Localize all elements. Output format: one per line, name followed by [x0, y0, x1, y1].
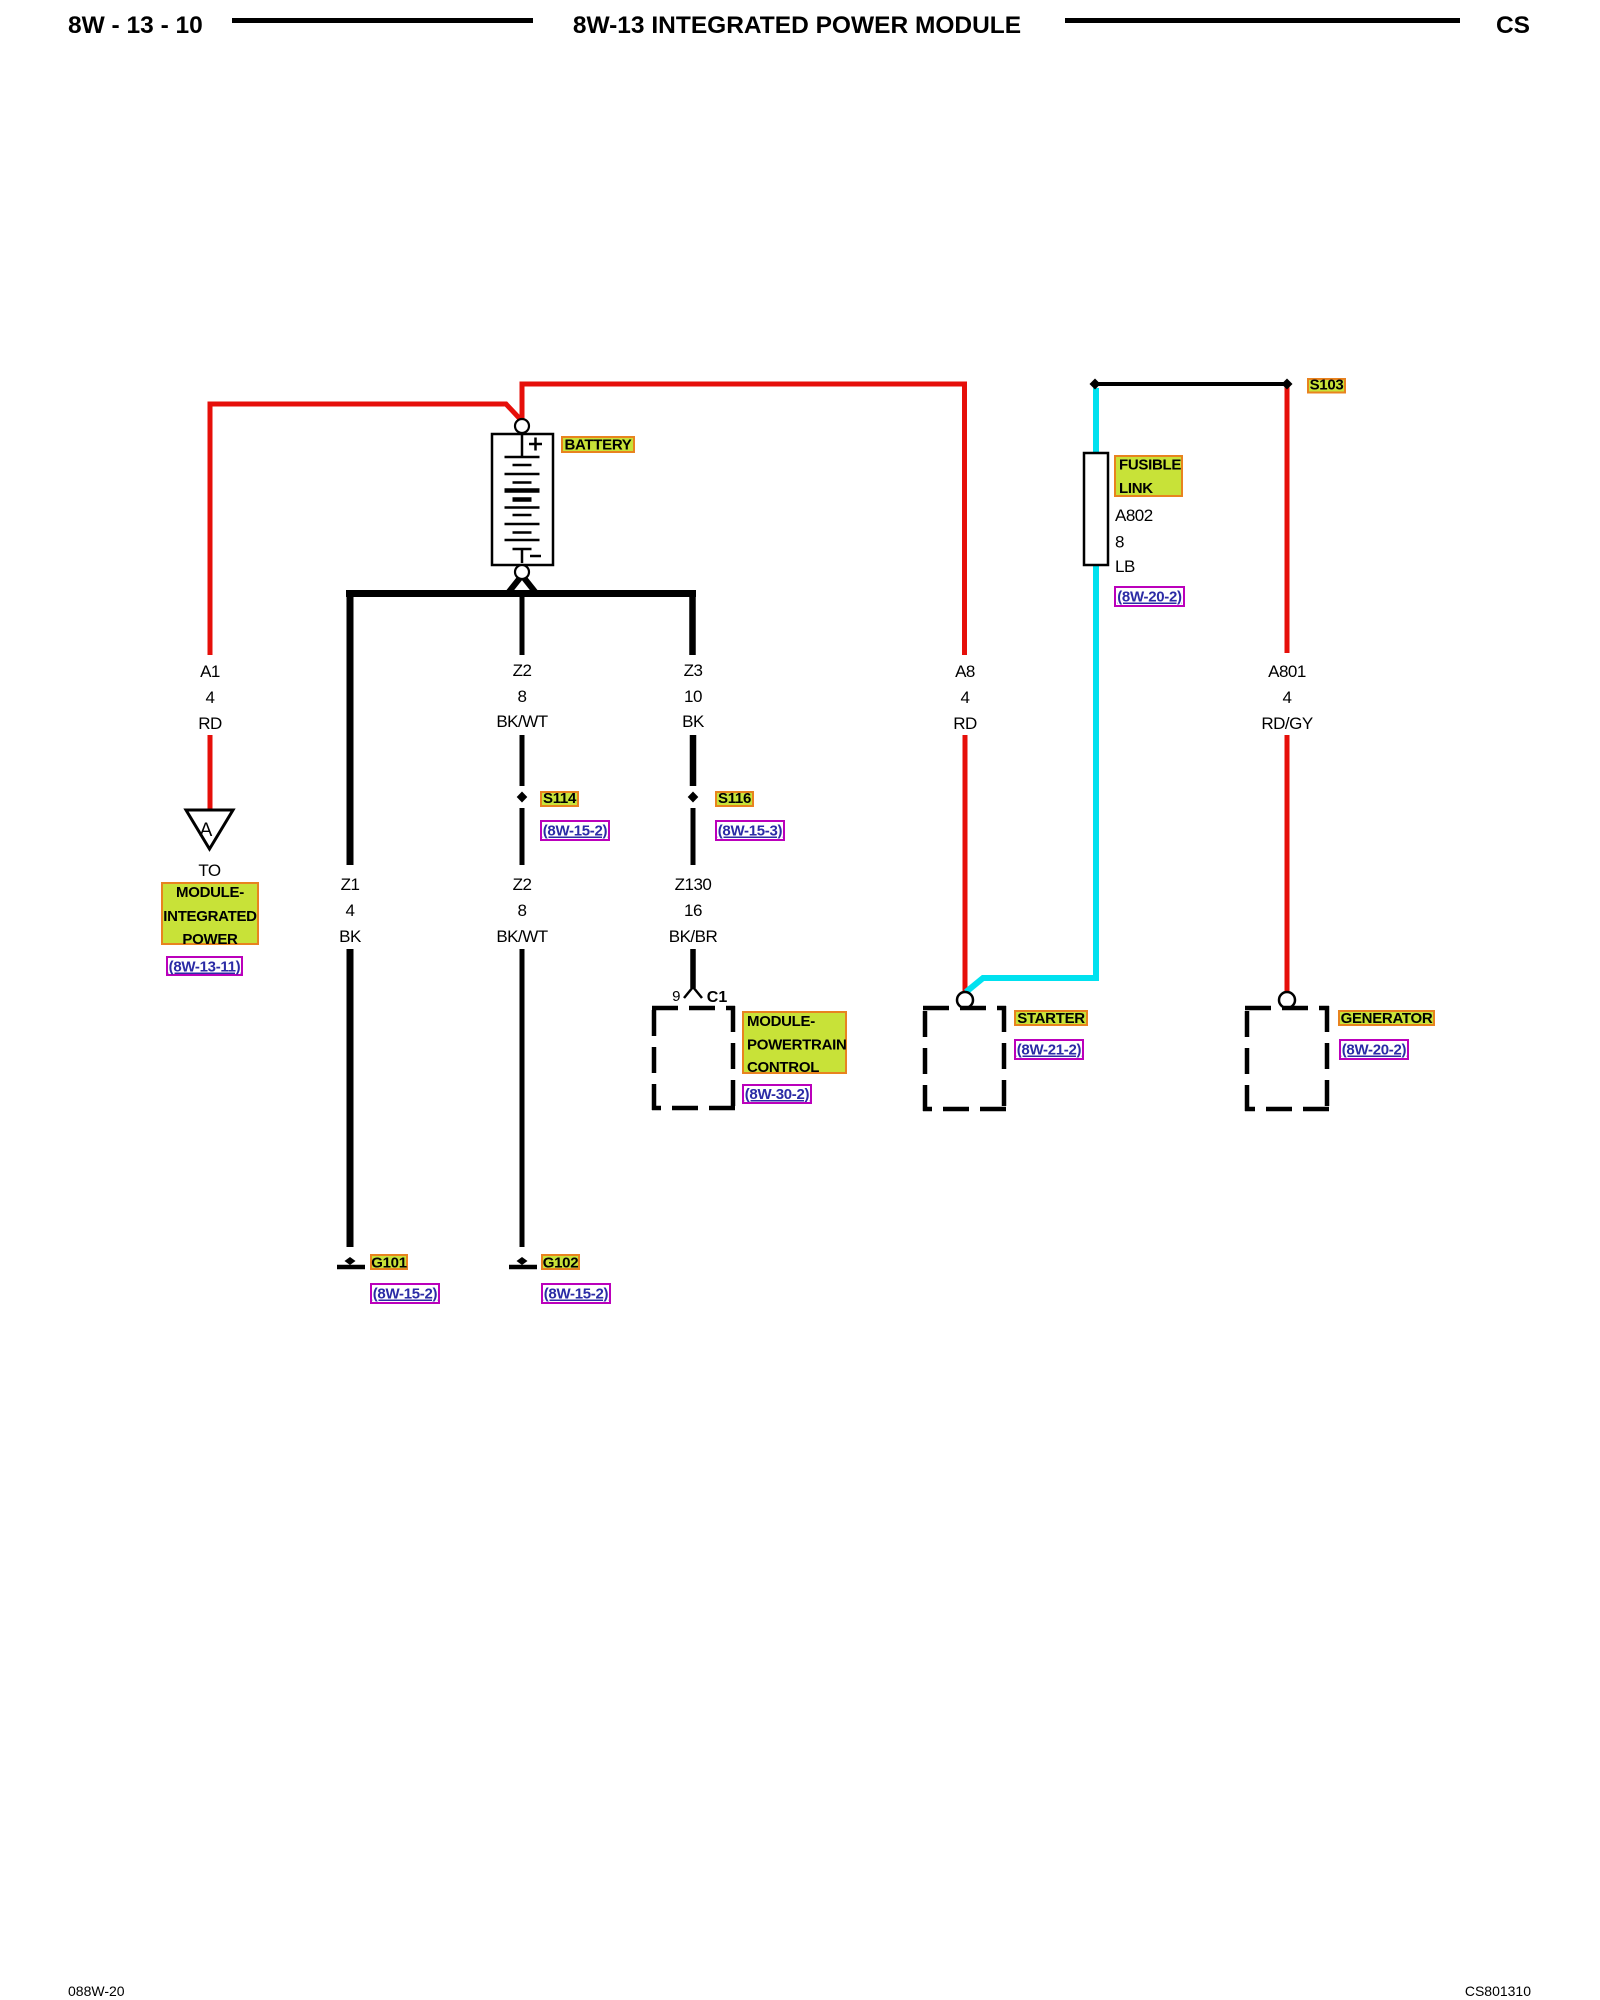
svg-text:MODULE-: MODULE-	[176, 884, 244, 901]
svg-text:S114: S114	[543, 790, 577, 807]
svg-text:POWER: POWER	[182, 931, 238, 948]
svg-text:CS801310: CS801310	[1465, 1983, 1531, 1999]
svg-text:8: 8	[518, 901, 527, 920]
svg-text:8W - 13 - 10: 8W - 13 - 10	[68, 12, 203, 39]
svg-text:8W-13 INTEGRATED POWER MODULE: 8W-13 INTEGRATED POWER MODULE	[573, 12, 1021, 39]
svg-text:10: 10	[684, 687, 702, 706]
svg-text:Z2: Z2	[513, 661, 532, 680]
svg-text:RD/GY: RD/GY	[1261, 714, 1313, 733]
svg-text:4: 4	[206, 688, 215, 707]
svg-text:A: A	[200, 820, 213, 841]
svg-text:4: 4	[961, 688, 970, 707]
svg-text:S103: S103	[1310, 377, 1344, 394]
svg-text:G102: G102	[543, 1255, 579, 1272]
svg-text:RD: RD	[953, 714, 977, 733]
svg-text:C1: C1	[707, 989, 728, 1006]
svg-text:POWERTRAIN: POWERTRAIN	[747, 1037, 847, 1054]
svg-text:(8W-15-3): (8W-15-3)	[718, 823, 783, 840]
svg-text:(8W-21-2): (8W-21-2)	[1017, 1042, 1082, 1059]
svg-text:A801: A801	[1268, 662, 1306, 681]
svg-text:CS: CS	[1496, 12, 1530, 39]
svg-text:(8W-20-2): (8W-20-2)	[1117, 589, 1182, 606]
svg-text:STARTER: STARTER	[1017, 1010, 1085, 1027]
svg-text:8: 8	[1115, 533, 1124, 552]
svg-text:LB: LB	[1115, 557, 1135, 576]
svg-text:(8W-13-11): (8W-13-11)	[169, 959, 241, 976]
svg-text:A8: A8	[955, 662, 975, 681]
svg-text:A802: A802	[1115, 506, 1153, 525]
svg-text:TO: TO	[198, 861, 221, 880]
svg-text:8: 8	[518, 687, 527, 706]
svg-text:INTEGRATED: INTEGRATED	[163, 908, 257, 925]
svg-text:(8W-15-2): (8W-15-2)	[544, 1286, 609, 1303]
svg-text:BK: BK	[682, 712, 705, 731]
svg-text:FUSIBLE: FUSIBLE	[1119, 457, 1181, 474]
svg-text:A1: A1	[200, 662, 220, 681]
svg-text:Z130: Z130	[675, 875, 712, 894]
svg-text:(8W-15-2): (8W-15-2)	[543, 823, 608, 840]
svg-text:(8W-20-2): (8W-20-2)	[1342, 1042, 1407, 1059]
svg-text:Z2: Z2	[513, 875, 532, 894]
svg-text:GENERATOR: GENERATOR	[1341, 1010, 1433, 1027]
svg-text:9: 9	[672, 988, 680, 1005]
svg-text:BK/WT: BK/WT	[496, 712, 547, 731]
svg-text:LINK: LINK	[1119, 480, 1153, 497]
svg-text:S116: S116	[718, 790, 751, 807]
svg-text:BK/WT: BK/WT	[496, 927, 547, 946]
svg-text:Z1: Z1	[341, 875, 360, 894]
svg-text:BK/BR: BK/BR	[669, 927, 718, 946]
svg-text:16: 16	[684, 901, 702, 920]
svg-text:MODULE-: MODULE-	[747, 1013, 815, 1030]
svg-text:CONTROL: CONTROL	[747, 1059, 819, 1076]
svg-text:088W-20: 088W-20	[68, 1983, 125, 1999]
svg-text:BK: BK	[339, 927, 362, 946]
svg-text:4: 4	[346, 901, 355, 920]
svg-text:RD: RD	[198, 714, 222, 733]
svg-text:4: 4	[1283, 688, 1292, 707]
svg-text:BATTERY: BATTERY	[564, 437, 631, 454]
svg-text:(8W-15-2): (8W-15-2)	[373, 1286, 438, 1303]
svg-text:Z3: Z3	[684, 661, 703, 680]
svg-text:G101: G101	[371, 1255, 407, 1272]
svg-text:(8W-30-2): (8W-30-2)	[745, 1086, 810, 1103]
